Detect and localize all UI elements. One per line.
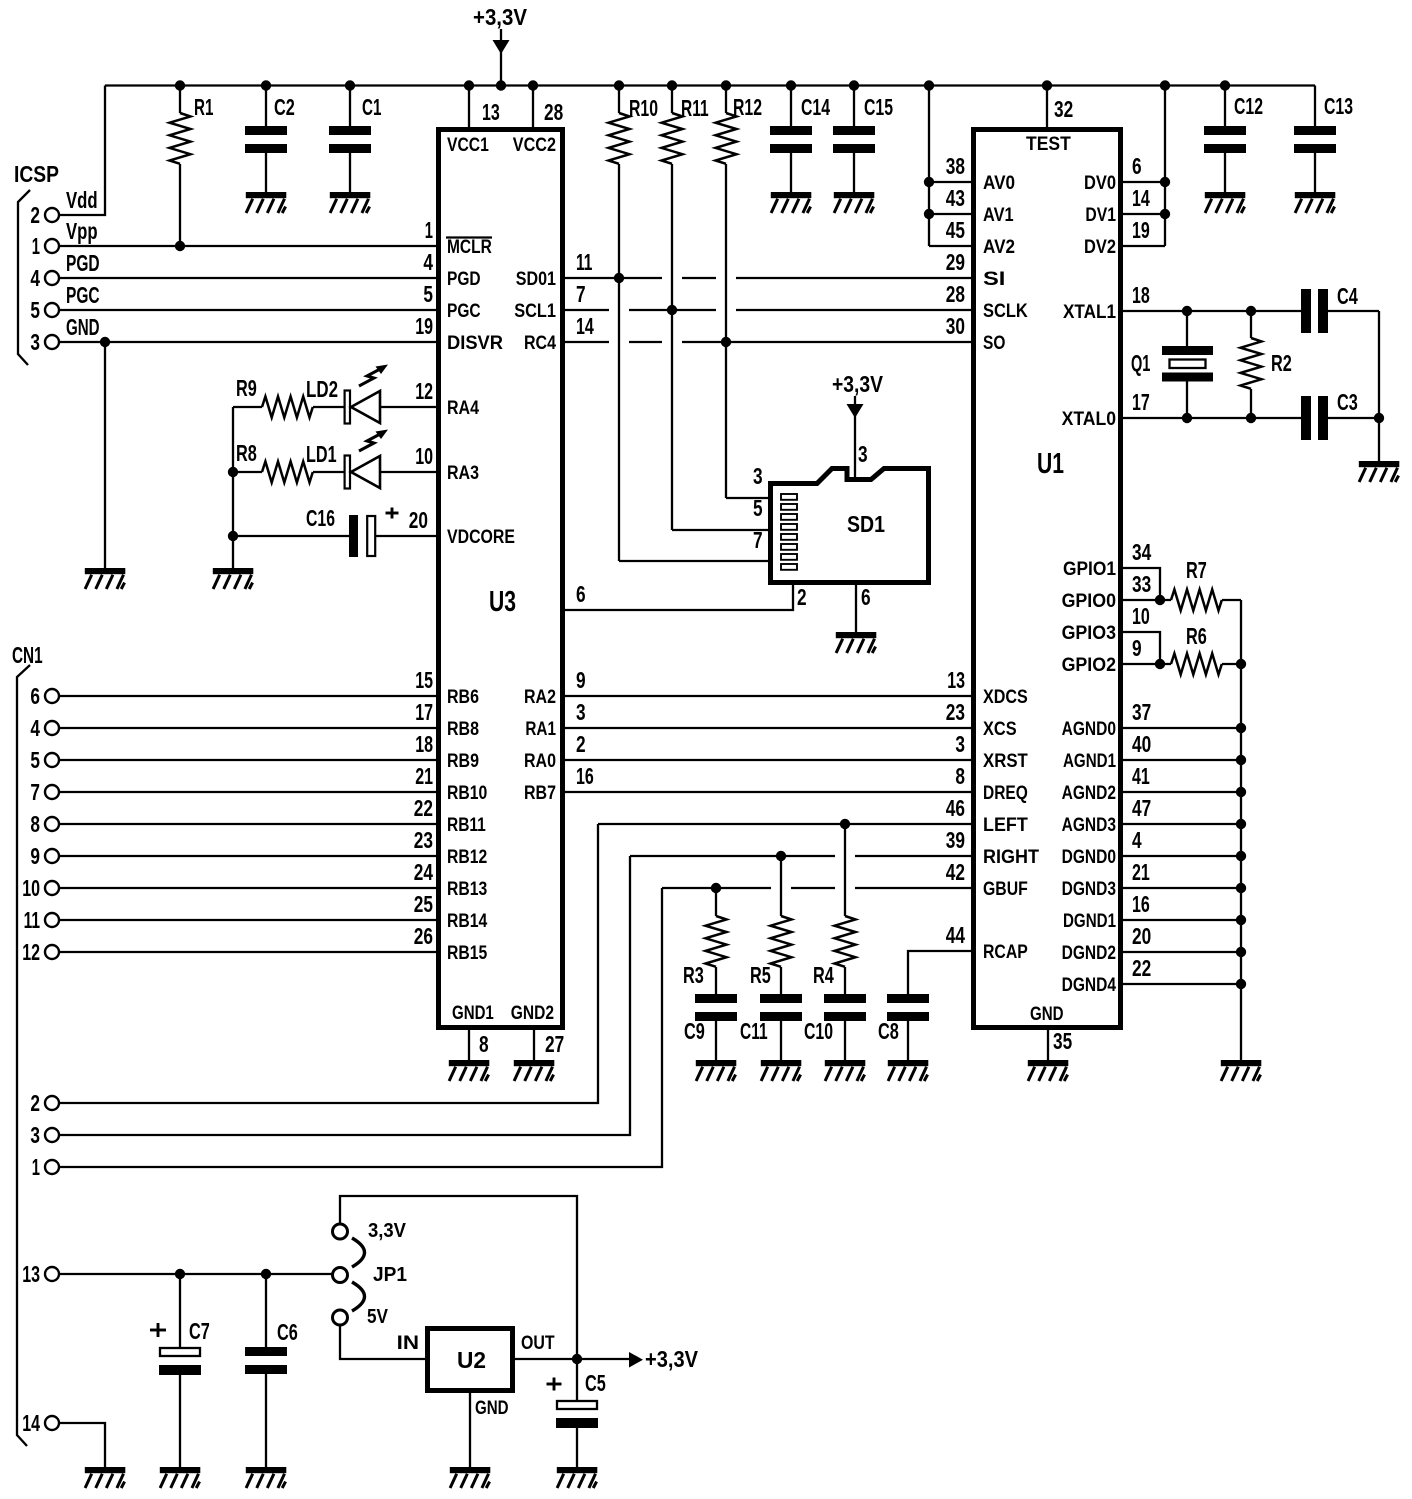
svg-text:R4: R4	[813, 962, 834, 988]
wire AV0/AV1/AV2 supply chain	[928, 86, 930, 247]
svg-text:5: 5	[30, 297, 40, 323]
svg-text:RCAP: RCAP	[983, 942, 1028, 963]
svg-text:20: 20	[409, 507, 428, 533]
svg-text:7: 7	[576, 281, 586, 307]
svg-text:27: 27	[545, 1031, 564, 1057]
svg-text:C14: C14	[801, 94, 830, 120]
svg-text:AGND3: AGND3	[1062, 815, 1116, 836]
wire GPIO3 to GPIO2	[1123, 632, 1160, 664]
svg-text:C3: C3	[1337, 389, 1358, 415]
svg-text:3: 3	[858, 441, 868, 467]
junction	[1236, 787, 1246, 797]
junction	[1236, 947, 1246, 957]
svg-text:XTAL1: XTAL1	[1063, 302, 1116, 323]
svg-text:14: 14	[1132, 185, 1150, 211]
resistor R8	[233, 462, 345, 483]
svg-text:5: 5	[30, 747, 40, 773]
ground	[449, 1060, 490, 1081]
CN1 pin 9	[45, 849, 59, 863]
junction	[175, 80, 185, 90]
svg-text:29: 29	[946, 249, 965, 275]
wire LEFT to CN1 pin 2	[59, 824, 598, 1103]
ground	[888, 1060, 929, 1081]
wire DV0/DV1/DV2 supply chain	[1164, 86, 1166, 247]
wire R11 net vertical to SD1	[671, 164, 673, 530]
wire CN1 pin 5 to U3	[59, 759, 436, 761]
wire U1 TEST pin 32	[1046, 86, 1048, 128]
capacitor C12	[1204, 86, 1246, 193]
svg-text:C12: C12	[1234, 93, 1263, 119]
svg-text:4: 4	[30, 265, 40, 291]
svg-text:GND: GND	[475, 1398, 509, 1419]
ICSP pin 4 (PGD)	[45, 271, 59, 285]
wire GPIO1 to GPIO0	[1123, 568, 1160, 600]
svg-text:17: 17	[1132, 389, 1150, 415]
junction	[776, 851, 786, 861]
svg-text:R3: R3	[683, 962, 704, 988]
svg-text:RB12: RB12	[447, 847, 487, 868]
svg-text:RB15: RB15	[447, 943, 488, 964]
wire CN1 pin 10 to U3	[59, 887, 436, 889]
svg-text:9: 9	[30, 843, 40, 869]
junction	[1042, 80, 1052, 90]
svg-text:DGND4: DGND4	[1062, 975, 1117, 996]
junction	[721, 80, 731, 90]
resistor R5	[771, 856, 792, 994]
wire GPIO0 row	[1123, 599, 1171, 601]
wire CN1 pin 13 to JP1	[59, 1273, 332, 1275]
svg-text:VCC2: VCC2	[513, 135, 556, 156]
svg-text:RB11: RB11	[447, 815, 486, 836]
svg-text:21: 21	[1132, 859, 1150, 885]
svg-text:SI: SI	[983, 269, 1005, 290]
junction	[496, 80, 506, 90]
svg-text:32: 32	[1054, 96, 1073, 122]
svg-text:GBUF: GBUF	[983, 879, 1028, 900]
svg-text:R6: R6	[1186, 623, 1207, 649]
svg-text:40: 40	[1132, 731, 1151, 757]
svg-text:CN1: CN1	[12, 642, 43, 668]
CN1 pin 6	[45, 689, 59, 703]
svg-text:7: 7	[753, 527, 763, 553]
junction	[464, 80, 474, 90]
ground	[557, 1467, 598, 1488]
capacitor C14	[770, 86, 812, 193]
svg-text:2: 2	[30, 202, 40, 228]
svg-text:RB9: RB9	[447, 751, 479, 772]
svg-text:25: 25	[414, 891, 433, 917]
svg-text:JP1: JP1	[373, 1264, 407, 1286]
junction	[1220, 80, 1230, 90]
svg-text:41: 41	[1132, 763, 1150, 789]
svg-text:LEFT: LEFT	[983, 815, 1028, 836]
svg-text:8: 8	[30, 811, 40, 837]
svg-text:C11: C11	[740, 1018, 768, 1044]
CN1 pin 1	[45, 1160, 59, 1174]
svg-text:Vdd: Vdd	[66, 187, 98, 213]
svg-text:6: 6	[1132, 153, 1142, 179]
wire SD1 pin 7 stub	[619, 560, 768, 562]
capacitor C15	[833, 86, 875, 193]
svg-text:13: 13	[947, 667, 965, 693]
ground	[761, 1060, 802, 1081]
svg-text:GPIO3: GPIO3	[1062, 623, 1116, 644]
svg-text:C2: C2	[274, 94, 295, 120]
svg-text:C13: C13	[1324, 93, 1353, 119]
ground	[160, 1467, 201, 1488]
svg-text:46: 46	[946, 795, 965, 821]
ground	[1205, 192, 1246, 213]
CN1 pin 12	[45, 945, 59, 959]
junction	[1236, 723, 1246, 733]
junction	[1182, 413, 1192, 423]
svg-text:ICSP: ICSP	[14, 161, 59, 187]
wire C4/C3 to ground	[1378, 311, 1380, 418]
CN1 pin 10	[45, 881, 59, 895]
ground	[450, 1467, 491, 1488]
svg-text:R11: R11	[681, 95, 709, 121]
capacitor C10	[824, 994, 866, 1060]
svg-text:AV0: AV0	[983, 173, 1015, 194]
wire CN1 pin 12 to U3	[59, 951, 436, 953]
svg-text:RA3: RA3	[447, 463, 479, 484]
wire AGND/DGND ground chain	[1240, 664, 1242, 1060]
svg-text:3: 3	[30, 1122, 40, 1148]
svg-text:38: 38	[946, 153, 965, 179]
svg-text:GND: GND	[66, 314, 100, 340]
junction	[1155, 595, 1165, 605]
resistor R12	[716, 86, 737, 164]
junction	[228, 467, 238, 477]
svg-text:RC4: RC4	[524, 333, 556, 354]
capacitor C7 (polarized)	[159, 1274, 201, 1467]
wire GBUF net	[662, 887, 771, 889]
junction	[228, 531, 238, 541]
resistor R4	[835, 824, 856, 994]
wire U2 GND to ground	[469, 1393, 471, 1467]
svg-text:RA4: RA4	[447, 398, 479, 419]
svg-text:+3,3V: +3,3V	[645, 1346, 699, 1372]
svg-text:C6: C6	[277, 1319, 298, 1345]
svg-text:5: 5	[423, 281, 433, 307]
capacitor C16 (polarized)	[233, 515, 436, 557]
CN1 pin 3	[45, 1128, 59, 1142]
svg-text:8: 8	[955, 763, 965, 789]
ground	[1359, 461, 1400, 482]
junction	[667, 305, 677, 315]
svg-text:Q1: Q1	[1131, 350, 1151, 376]
svg-text:XCS: XCS	[983, 719, 1017, 740]
svg-text:SCLK: SCLK	[983, 301, 1028, 322]
junction	[1236, 819, 1246, 829]
wire GND to U3 DISVR	[59, 341, 436, 343]
svg-text:3: 3	[955, 731, 965, 757]
svg-text:RB10: RB10	[447, 783, 487, 804]
plus sign C7	[150, 1329, 166, 1332]
svg-text:3: 3	[753, 463, 763, 489]
ground	[1028, 1060, 1069, 1081]
ground	[85, 1467, 126, 1488]
resistor R2	[1241, 311, 1262, 418]
svg-text:4: 4	[423, 249, 433, 275]
svg-text:SD01: SD01	[516, 269, 557, 290]
SD card SD1	[771, 469, 929, 583]
resistor R10	[609, 86, 630, 164]
svg-text:1: 1	[32, 1154, 40, 1180]
connector ICSP bracket	[18, 190, 30, 365]
svg-text:35: 35	[1053, 1028, 1072, 1054]
svg-text:RA2: RA2	[524, 687, 556, 708]
ICSP pin 1 (Vpp)	[45, 239, 59, 253]
svg-text:GPIO0: GPIO0	[1062, 591, 1116, 612]
svg-text:DV0: DV0	[1084, 173, 1116, 194]
svg-text:23: 23	[946, 699, 965, 725]
svg-text:AV1: AV1	[983, 205, 1014, 226]
wire Vpp to U3 MCLR	[59, 245, 436, 247]
junction	[1236, 979, 1246, 989]
svg-text:16: 16	[576, 763, 594, 789]
wire SD1 pin 5 stub	[672, 529, 768, 531]
resistor R7	[1171, 590, 1241, 611]
junction	[667, 80, 677, 90]
wire R12 net vertical to SD1	[725, 164, 727, 498]
svg-text:RIGHT: RIGHT	[983, 847, 1039, 868]
junction	[345, 80, 355, 90]
wire CN1 pin 8 to U3	[59, 823, 436, 825]
svg-text:22: 22	[1132, 955, 1151, 981]
ground	[825, 1060, 866, 1081]
svg-text:13: 13	[22, 1261, 40, 1287]
wire LEFT net	[598, 823, 971, 825]
wire RIGHT to CN1 pin 3	[59, 856, 630, 1135]
junction	[1246, 413, 1256, 423]
svg-text:4: 4	[30, 715, 40, 741]
wire Vdd drop to ICSP pin 2	[59, 86, 105, 216]
svg-text:R1: R1	[194, 94, 214, 120]
ground	[771, 192, 812, 213]
junction	[1236, 883, 1246, 893]
svg-text:28: 28	[544, 99, 563, 125]
jumper JP1	[333, 1224, 365, 1325]
svg-text:20: 20	[1132, 923, 1151, 949]
junction	[1160, 80, 1170, 90]
svg-text:18: 18	[1132, 282, 1150, 308]
CN1 pin 4	[45, 721, 59, 735]
capacitor C13	[1294, 86, 1336, 193]
wire CN1 pin 7 to U3	[59, 791, 436, 793]
svg-text:4: 4	[1132, 827, 1142, 853]
svg-text:16: 16	[1132, 891, 1150, 917]
junction	[572, 1354, 582, 1364]
svg-text:SO: SO	[983, 333, 1005, 354]
svg-text:6: 6	[576, 581, 586, 607]
wire CN1 pin 14 to ground	[59, 1423, 105, 1467]
junction	[849, 80, 859, 90]
connector CN1 bracket	[17, 665, 30, 1446]
svg-text:R10: R10	[629, 95, 658, 121]
ICSP pin 2 (Vdd)	[45, 208, 59, 222]
junction	[1182, 306, 1192, 316]
LED LD2	[345, 365, 436, 424]
svg-text:2: 2	[576, 731, 586, 757]
plus sign C5	[547, 1383, 562, 1386]
svg-text:DGND2: DGND2	[1062, 943, 1116, 964]
junction	[924, 80, 934, 90]
wire U3 GND2 pin 27	[533, 1030, 535, 1060]
junction	[1155, 659, 1165, 669]
wire XTAL1 row	[1123, 310, 1301, 312]
capacitor C2	[245, 86, 287, 193]
svg-text:TEST: TEST	[1026, 134, 1071, 155]
svg-text:3: 3	[576, 699, 586, 725]
svg-text:R2: R2	[1271, 350, 1292, 376]
plus sign C16	[386, 512, 399, 515]
wire SCL1 to U1 SCLK	[565, 309, 609, 311]
wire RB7 to DREQ	[565, 791, 971, 793]
resistor R1	[170, 86, 191, 247]
+3.3V power symbol at SD1	[847, 396, 864, 478]
svg-text:DV1: DV1	[1085, 205, 1116, 226]
svg-text:12: 12	[415, 378, 433, 404]
svg-text:C10: C10	[804, 1018, 833, 1044]
capacitor C9	[695, 994, 737, 1060]
wire U3 GND1 pin 8	[468, 1030, 470, 1060]
svg-text:8: 8	[479, 1031, 489, 1057]
svg-text:DGND0: DGND0	[1062, 847, 1116, 868]
capacitor C5 (polarized)	[556, 1359, 598, 1467]
wire U1 GND pin 35	[1047, 1030, 1049, 1060]
wire R7/R6 junction vertical	[1240, 600, 1242, 664]
ground	[246, 192, 286, 213]
svg-text:C1: C1	[362, 94, 382, 120]
svg-text:+3,3V: +3,3V	[832, 371, 884, 397]
svg-text:DGND1: DGND1	[1063, 911, 1116, 932]
svg-text:SD1: SD1	[847, 511, 885, 537]
wire RCAP	[908, 951, 971, 994]
junction	[721, 337, 731, 347]
wire U3 VCC1 pin 13	[468, 86, 470, 128]
svg-text:IN: IN	[397, 1333, 419, 1354]
CN1 pin 8	[45, 817, 59, 831]
junction	[175, 1269, 185, 1279]
svg-text:34: 34	[1132, 539, 1151, 565]
svg-text:+3,3V: +3,3V	[473, 4, 528, 30]
junction	[261, 80, 271, 90]
svg-text:GPIO2: GPIO2	[1062, 655, 1116, 676]
svg-text:42: 42	[946, 859, 965, 885]
wire SD01 to U1 SI	[565, 277, 662, 279]
svg-text:2: 2	[797, 584, 807, 610]
svg-text:C7: C7	[189, 1318, 210, 1344]
svg-text:C8: C8	[878, 1018, 899, 1044]
svg-text:C16: C16	[306, 505, 335, 531]
wire CN1 pin 6 to U3	[59, 695, 436, 697]
resistor R3	[706, 888, 727, 994]
ground	[85, 568, 126, 589]
svg-text:14: 14	[22, 1410, 40, 1436]
junction	[614, 273, 624, 283]
svg-text:LD1: LD1	[306, 441, 337, 467]
junction	[924, 177, 934, 187]
svg-text:19: 19	[1132, 217, 1150, 243]
junction	[1236, 851, 1246, 861]
wire SD1 pin 3 stub	[726, 497, 768, 499]
LED LD1	[345, 430, 436, 489]
wire +3.3V rail	[105, 84, 1315, 86]
svg-text:RB7: RB7	[524, 783, 556, 804]
svg-text:47: 47	[1132, 795, 1151, 821]
IC U1	[974, 130, 1121, 1028]
svg-text:28: 28	[946, 281, 965, 307]
svg-text:9: 9	[576, 667, 586, 693]
+3.3V output arrow	[629, 1352, 643, 1368]
svg-text:U2: U2	[457, 1347, 486, 1373]
capacitor C1	[329, 86, 371, 193]
svg-text:33: 33	[1132, 571, 1151, 597]
wire R10 net vertical to SD1	[618, 164, 620, 561]
wire ICSP GND down	[104, 342, 106, 568]
svg-text:PGD: PGD	[66, 250, 100, 276]
svg-text:R9: R9	[236, 375, 257, 401]
ICSP pin 3 (GND)	[45, 335, 59, 349]
svg-text:VDCORE: VDCORE	[447, 527, 515, 548]
wire RA2 to XDCS	[565, 695, 971, 697]
svg-text:PGC: PGC	[447, 301, 481, 322]
crystal Q1	[1162, 311, 1213, 418]
svg-text:R8: R8	[236, 440, 257, 466]
svg-text:22: 22	[414, 795, 433, 821]
IC U3	[439, 130, 563, 1028]
svg-text:AGND0: AGND0	[1062, 719, 1116, 740]
wire CN1 pin 11 to U3	[59, 919, 436, 921]
ground	[696, 1060, 737, 1081]
svg-text:RA1: RA1	[525, 719, 556, 740]
svg-text:GND1: GND1	[452, 1003, 494, 1024]
svg-text:AV2: AV2	[983, 237, 1015, 258]
svg-text:GND: GND	[1030, 1004, 1064, 1025]
junction	[1374, 413, 1384, 423]
svg-text:43: 43	[946, 185, 965, 211]
svg-text:7: 7	[30, 779, 40, 805]
ground	[213, 568, 254, 589]
junction	[1236, 659, 1246, 669]
svg-text:AGND1: AGND1	[1063, 751, 1116, 772]
wire RA0 to XRST	[565, 759, 971, 761]
junction	[711, 883, 721, 893]
svg-text:C15: C15	[864, 94, 893, 120]
junction	[175, 241, 185, 251]
svg-text:XDCS: XDCS	[983, 687, 1028, 708]
wire RA1 to XCS	[565, 727, 971, 729]
wire JP1 3.3V position to OUT net	[340, 1196, 577, 1359]
ICSP pin 5 (PGC)	[45, 303, 59, 317]
svg-text:R7: R7	[1186, 557, 1207, 583]
svg-text:DREQ: DREQ	[983, 783, 1028, 804]
CN1 pin 14	[45, 1416, 59, 1430]
svg-text:21: 21	[415, 763, 433, 789]
svg-text:DV2: DV2	[1084, 237, 1116, 258]
svg-text:RA0: RA0	[524, 751, 556, 772]
svg-text:1: 1	[32, 233, 40, 259]
svg-text:RB14: RB14	[447, 911, 488, 932]
CN1 pin 7	[45, 785, 59, 799]
svg-text:U1: U1	[1037, 448, 1064, 480]
ground	[1221, 1060, 1262, 1081]
wire LED bias vertical	[232, 407, 234, 568]
svg-text:44: 44	[946, 922, 965, 948]
svg-text:26: 26	[414, 923, 433, 949]
svg-text:45: 45	[946, 217, 965, 243]
